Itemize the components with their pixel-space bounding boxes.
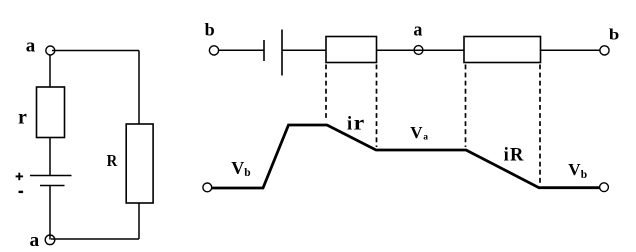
svg-text:b: b xyxy=(244,167,250,179)
curve right terminal circle xyxy=(600,183,609,192)
wire b to battery xyxy=(219,49,265,51)
node b left terminal xyxy=(209,46,218,55)
svg-text:a: a xyxy=(30,230,40,251)
node a (top-left terminal) xyxy=(46,46,55,55)
wire bottom (right corner to node a) xyxy=(51,238,139,240)
node b right terminal xyxy=(600,46,609,55)
svg-text:b: b xyxy=(205,20,215,40)
wire below R down xyxy=(138,203,140,239)
svg-text:R: R xyxy=(510,146,524,166)
svg-text:V: V xyxy=(568,160,581,179)
node a (bottom-left terminal) xyxy=(45,235,55,245)
resistor R box xyxy=(126,124,153,203)
svg-text:V: V xyxy=(231,158,244,178)
dashed line from r box right edge xyxy=(376,65,378,148)
battery short plate (negative) xyxy=(40,185,65,187)
svg-text:b: b xyxy=(581,169,587,181)
wire right vertical down to R xyxy=(138,51,140,125)
svg-text:V: V xyxy=(410,123,423,142)
wire r box to node a and to R box xyxy=(377,49,465,51)
resistor r box (horizontal) xyxy=(326,37,377,63)
curve left terminal circle xyxy=(203,183,212,192)
battery short plate (vertical) xyxy=(263,40,265,61)
svg-text:i: i xyxy=(504,146,509,166)
resistor r box xyxy=(37,87,65,138)
svg-text:a: a xyxy=(26,36,36,57)
battery long plate (vertical) xyxy=(281,30,283,76)
battery long plate (positive) xyxy=(30,175,72,177)
svg-text:a: a xyxy=(413,19,422,40)
svg-text:a: a xyxy=(423,133,428,143)
svg-text:b: b xyxy=(609,26,620,43)
wire r box up to node a xyxy=(49,55,51,88)
potential curve xyxy=(212,125,601,188)
dashed line from r box left edge xyxy=(325,65,327,122)
node a (middle terminal) xyxy=(414,46,423,55)
svg-text:R: R xyxy=(107,151,118,170)
resistor R box (horizontal) xyxy=(464,37,541,63)
wire node a up to battery xyxy=(49,186,51,240)
dashed line from R box left edge xyxy=(465,65,467,148)
dashed line from R box right edge xyxy=(539,65,541,185)
svg-text:i: i xyxy=(347,114,352,134)
wire R box to node b right xyxy=(541,49,601,51)
label + xyxy=(16,175,24,177)
svg-text:r: r xyxy=(18,106,27,128)
label - xyxy=(19,191,24,193)
wire battery up to resistor r xyxy=(49,138,51,176)
wire battery to resistor r box xyxy=(282,49,326,51)
svg-text:r: r xyxy=(354,112,365,134)
wire top (node a to right corner) xyxy=(52,50,139,52)
